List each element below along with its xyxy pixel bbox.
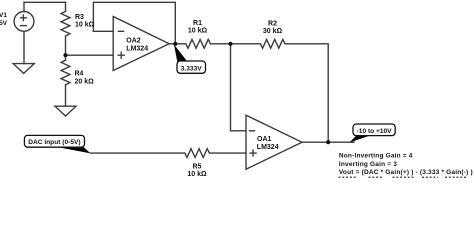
net flag -10 to +10V box [353,124,395,136]
wire R3 top lead [65,2,67,11]
svg-text:LM324: LM324 [126,46,148,53]
junction node output [326,140,330,144]
wire DAC input to R5 [91,152,185,154]
spellcheck underline Gain(-) [445,176,466,178]
wire OA2 output to R1 [169,43,186,45]
svg-text:OA2: OA2 [126,38,141,45]
svg-text:LM324: LM324 [257,144,279,151]
spellcheck underline DAC [369,176,384,178]
op-amp OA2 triangle [113,17,169,71]
svg-text:30 kΩ: 30 kΩ [263,28,283,35]
wire R2 to right column down to output node [285,44,328,142]
wire node to OA2 + input [66,54,114,56]
voltage source V1 circle [14,12,34,32]
svg-text:OA1: OA1 [257,136,272,143]
ground G1 under V1 [13,64,34,74]
resistor R2 zigzag [260,39,285,48]
wire feedback loop OA2 [93,2,175,44]
svg-text:R4: R4 [75,70,84,77]
svg-text:-10 to +10V: -10 to +10V [357,128,393,135]
wire node B down to OA1 inverting input [231,44,247,131]
spellcheck underline 3.333 [422,176,438,178]
net flag DAC input tail [59,147,91,153]
net flag 3.333V tail [174,45,188,62]
svg-text:Inverting Gain = 3: Inverting Gain = 3 [339,161,397,168]
svg-text:Vout = (DAC * Gain(+) ) - (3.3: Vout = (DAC * Gain(+) ) - (3.333 * Gain(… [339,169,473,176]
svg-text:20 kΩ: 20 kΩ [75,78,95,85]
junction node divider [63,53,67,57]
wire R3 bottom lead to node [65,36,67,55]
svg-text:Non-Inverting Gain = 4: Non-Inverting Gain = 4 [339,152,413,159]
svg-text:DAC input (0-5V): DAC input (0-5V) [28,139,80,146]
OA1 minus mark [250,130,255,132]
resistor R1 zigzag [186,39,211,48]
svg-text:V1: V1 [0,12,7,19]
OA1 plus mark [250,150,256,156]
net flag 3.333V box [177,61,206,73]
OA2 minus mark [119,30,124,32]
junction node A OA2 output [173,42,177,46]
resistor R5 zigzag [185,149,210,158]
OA2 plus mark [118,52,124,58]
wire V1 top lead [23,2,25,11]
wire top rail V1 to R3 [24,1,66,3]
svg-text:R1: R1 [193,20,202,27]
svg-text:10 kΩ: 10 kΩ [188,27,208,34]
wire R5 to OA1 + input [210,152,247,154]
op-amp OA1 triangle [246,115,302,169]
svg-text:10 kΩ: 10 kΩ [187,171,207,178]
V1 plus mark [21,15,27,21]
net flag -10 to +10V tail [350,136,370,143]
spellcheck underline Gain(+) [393,176,415,178]
wire R1 to node B [211,43,231,45]
svg-text:R5: R5 [193,163,202,170]
wire OA2 inverting input [93,30,113,32]
ground G2 under R4 [55,106,76,116]
wire R4 top lead [65,55,67,60]
wire OA1 output [302,141,354,143]
net flag DAC input box [24,135,84,147]
svg-text:R2: R2 [268,20,277,27]
svg-text:5V: 5V [0,20,8,27]
wire R4 bottom lead to ground [65,85,67,106]
svg-text:3.333V: 3.333V [181,65,203,72]
svg-text:R3: R3 [75,14,84,21]
wire V1 bottom lead to ground [23,31,25,63]
spellcheck underline Vout [339,176,358,178]
junction node B R1-R2 [228,42,232,46]
resistor R3 zigzag [61,11,70,36]
wire node B to R2 [231,43,261,45]
resistor R4 zigzag [61,60,70,85]
svg-text:10 kΩ: 10 kΩ [75,22,95,29]
V1 minus mark [21,25,27,27]
